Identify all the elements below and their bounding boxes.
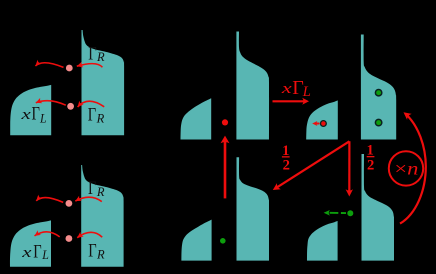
big repeat arrow (x n) arc [400, 114, 426, 224]
arrow out of dot 3 to far left [36, 198, 63, 203]
band: bottom row column 1 [237, 157, 270, 260]
arrow branch 1/2 diagonal to column 1 [276, 141, 349, 188]
svg-text:x: x [280, 81, 292, 97]
label Gamma_R (upper) [88, 43, 105, 64]
label x Gamma_L (red, transfer rate) [280, 77, 310, 100]
arrow Gamma_R into upper dot (bottom panel) [75, 197, 102, 201]
svg-text:Γ: Γ [88, 104, 96, 125]
dashed green arrow moving left [330, 212, 339, 214]
electron (green) with dashed arrow [347, 210, 353, 216]
label x Gamma_L (bottom panel) [21, 241, 49, 262]
electron (green) bottom far left [220, 238, 226, 244]
arrow x Gamma_L left band to middle band [273, 100, 306, 102]
svg-text:R: R [96, 50, 105, 64]
svg-text:Γ: Γ [32, 104, 40, 125]
electron (red) in middle band [321, 121, 327, 127]
svg-text:R: R [96, 111, 105, 125]
svg-text:Γ: Γ [88, 241, 96, 262]
lead: top-left panel left reservoir [10, 85, 51, 135]
arrow Gamma_R into mid dot [78, 101, 105, 107]
electron (green) upper in column 3 [375, 90, 381, 96]
svg-text:×n: ×n [394, 159, 418, 179]
arrow x Gamma_L from mid dot into left lead [36, 101, 66, 106]
svg-text:R: R [96, 248, 105, 262]
svg-text:L: L [39, 111, 47, 125]
svg-text:Γ: Γ [88, 43, 96, 64]
svg-text:Γ: Γ [88, 178, 96, 199]
band: bottom row column 3 [362, 154, 395, 261]
electron (pink) dot 4 [66, 235, 73, 242]
arrow out of upper dot to far left [35, 63, 63, 68]
band: bottom row column 2 (mirrored) [307, 221, 338, 261]
arrow Gamma_R into dot 4 [77, 232, 102, 237]
svg-text:x: x [21, 245, 32, 261]
electron (pink) dot 3 [66, 200, 73, 207]
arrow branch 1/2 vertical down [348, 141, 350, 192]
lead: bottom-left panel left reservoir [10, 220, 51, 266]
lead: bottom-left panel right reservoir [81, 165, 123, 267]
band: top row column 1 [236, 32, 269, 140]
arrow x Gamma_L from dot 4 into left lead [35, 232, 60, 237]
arrow up (recycling) left edge [224, 140, 227, 199]
label Gamma_R (bottom panel upper) [88, 178, 105, 199]
label x Gamma_L (mid row) [20, 104, 47, 126]
label Gamma_R (mid row) [88, 104, 105, 125]
svg-text:Γ: Γ [33, 241, 41, 262]
label 1/2 (left branch) [282, 143, 290, 173]
band: top row column 3 [361, 35, 396, 140]
lead: top-left panel right reservoir [82, 30, 125, 135]
electron (pink) mid dot [67, 103, 74, 110]
svg-text:x: x [20, 107, 31, 123]
label 1/2 (right branch) [367, 142, 375, 173]
electron (pink) upper dot [66, 65, 73, 72]
svg-text:2: 2 [367, 157, 374, 173]
ejected electron (red) top-left of right half [222, 119, 228, 125]
band: top row column 0 (mirrored, far left) [181, 98, 212, 139]
svg-text:L: L [41, 248, 49, 262]
svg-text:2: 2 [283, 157, 290, 173]
svg-text:R: R [96, 185, 105, 199]
svg-text:L: L [302, 84, 311, 100]
band: bottom row column 0 (mirrored, far left) [181, 220, 211, 261]
small arrow left from red electron [315, 123, 319, 125]
band: top row column 2 (mirrored) [306, 100, 338, 139]
electron (green) lower in column 3 [375, 119, 381, 125]
label Gamma_R (bottom panel lower) [88, 241, 105, 262]
arrow Gamma_R into upper dot [77, 64, 103, 68]
label (x n) circled [389, 151, 423, 185]
